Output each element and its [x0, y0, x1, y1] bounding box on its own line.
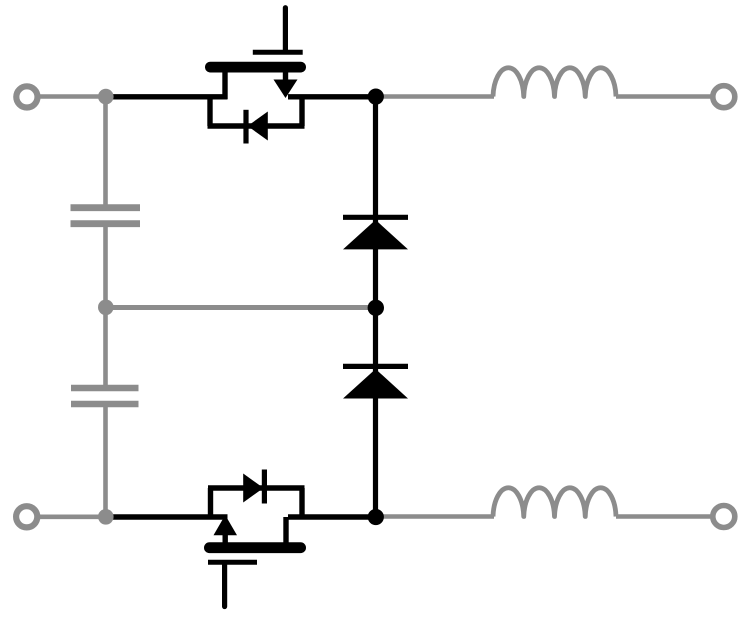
wire vertical black bus — [373, 97, 378, 518]
terminal top-left — [16, 86, 37, 107]
terminal bottom-left — [16, 506, 37, 527]
node M (gray junction dot) — [98, 300, 114, 316]
wire source Q2 black (node B to MOSFET Q2 source) — [108, 514, 228, 519]
transistor Q2 (lower MOSFET) — [204, 515, 306, 607]
body diode of Q2 — [208, 470, 305, 518]
wire source Q1 black (node A to MOSFET Q1 source) — [108, 94, 228, 99]
terminal bottom-right — [713, 506, 735, 528]
wire bottom-right gray (L2 to terminal) — [616, 514, 711, 519]
wire bottom-left gray (terminal to node B) — [38, 514, 106, 519]
body diode of Q1 — [208, 97, 305, 144]
wire bottom output gray (phase node to inductor L2) — [378, 514, 494, 519]
wire left bus bottom (C2 to node B) — [103, 405, 108, 517]
wire drain Q1 black (Q1 drain to phase node) — [288, 94, 376, 99]
wire left bus upper (node A to capacitor C1) — [103, 97, 108, 207]
capacitor C2 — [71, 388, 139, 404]
wire midpoint horizontal (node M to clamp node) — [106, 305, 371, 310]
node phase top (junction dot) — [368, 89, 384, 105]
diode D2 (lower clamp) — [343, 366, 408, 398]
wire top-left gray (terminal to node A) — [39, 94, 106, 99]
terminal top-right — [713, 86, 735, 108]
wire top-right gray (L1 to terminal) — [616, 94, 711, 99]
diode D1 (upper clamp) — [343, 217, 408, 249]
wire left bus lower (node M to capacitor C2) — [103, 307, 108, 387]
wire drain Q2 black (Q2 drain to phase node bottom) — [288, 514, 376, 519]
capacitor C1 — [71, 208, 141, 224]
wire left bus middle (C1 to node M) — [103, 225, 108, 307]
node B (gray junction dot) — [98, 509, 114, 525]
transistor Q1 (upper MOSFET) — [205, 8, 306, 99]
node phase bottom (junction dot) — [368, 509, 384, 525]
inductor L1 — [493, 68, 616, 97]
node A (gray junction dot) — [98, 89, 114, 105]
inductor L2 — [493, 488, 616, 517]
wire top output gray (phase node to inductor L1) — [378, 94, 494, 99]
node clamp middle (junction dot) — [368, 300, 384, 316]
